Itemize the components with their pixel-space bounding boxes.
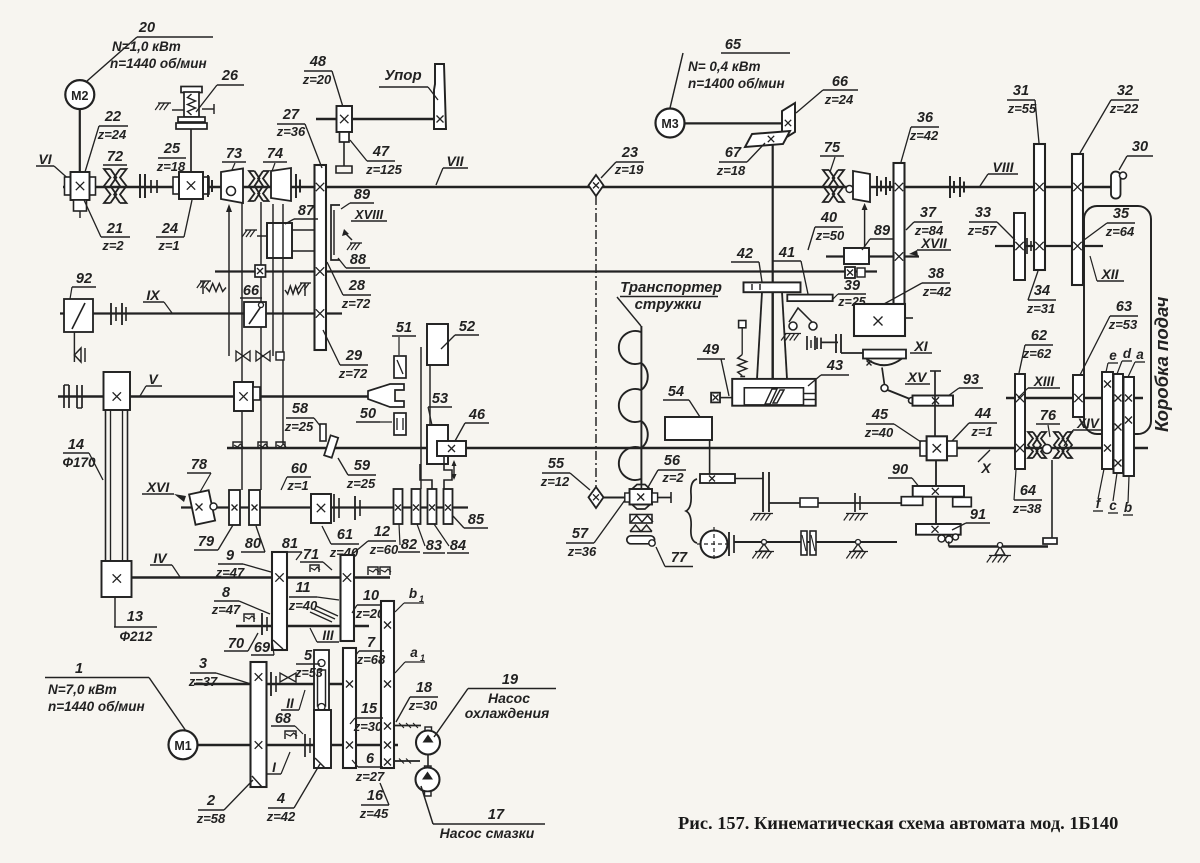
motor M3 — [656, 109, 685, 138]
freewheel bowtie on II — [280, 673, 296, 682]
svg-text:n=1400 об/мин: n=1400 об/мин — [688, 76, 785, 91]
svg-text:22: 22 — [104, 109, 121, 125]
wire 52 to 53 — [429, 365, 431, 425]
svg-text:III: III — [322, 628, 334, 643]
pump 17 nub top — [425, 766, 432, 771]
gear 83 — [412, 489, 421, 524]
gear 32 column — [1072, 154, 1083, 285]
gear 48 on aux shaft — [337, 106, 353, 132]
svg-text:z=36: z=36 — [567, 544, 597, 559]
box 87 clutch actuator — [267, 223, 292, 258]
vbelt clutch 76 on shaft XIV — [1028, 432, 1038, 458]
svg-text:40: 40 — [820, 210, 837, 226]
cam lever arm tapering — [757, 292, 762, 379]
svg-text:76: 76 — [1040, 408, 1057, 424]
gearbox 78 — [189, 490, 215, 524]
svg-text:18: 18 — [416, 680, 433, 696]
gear 4 column — [314, 710, 331, 768]
svg-text:41: 41 — [778, 245, 795, 261]
svg-text:z=42: z=42 — [266, 809, 296, 824]
svg-text:52: 52 — [459, 319, 475, 335]
svg-text:78: 78 — [191, 457, 208, 473]
ground hatch below y=503 right — [846, 513, 868, 515]
svg-text:z=25: z=25 — [284, 419, 314, 434]
control rod with arrow — [228, 207, 230, 356]
gear 84 — [428, 489, 437, 524]
svg-text:Насос: Насос — [488, 690, 530, 706]
svg-text:XIII: XIII — [1033, 374, 1055, 389]
wire clutch to bars — [735, 478, 763, 480]
svg-text:XII: XII — [1100, 266, 1119, 282]
gear 12/10 column — [341, 555, 355, 641]
handle 30 — [1111, 172, 1121, 199]
svg-text:z=18: z=18 — [716, 163, 746, 178]
svg-text:17: 17 — [488, 807, 505, 823]
wire y=353 to quadrant — [841, 352, 865, 354]
gear 63 column — [1073, 375, 1084, 417]
svg-text:61: 61 — [337, 527, 353, 543]
svg-text:73: 73 — [226, 146, 242, 162]
svg-text:z=24: z=24 — [97, 127, 127, 142]
svg-text:N= 0,4 кВт: N= 0,4 кВт — [688, 59, 761, 74]
svg-text:20: 20 — [138, 20, 155, 36]
svg-text:87: 87 — [298, 203, 315, 219]
svg-text:19: 19 — [502, 672, 518, 688]
box 53 — [427, 425, 448, 464]
svg-text:85: 85 — [468, 512, 485, 528]
gear 38 box — [854, 304, 905, 336]
gear 27/28/29 tall column — [315, 165, 327, 350]
svg-text:72: 72 — [107, 149, 123, 165]
svg-text:21: 21 — [106, 221, 123, 237]
cam bar 42 — [744, 282, 801, 292]
feed box frame rounded — [1084, 206, 1151, 434]
svg-text:34: 34 — [1034, 283, 1050, 299]
svg-text:14: 14 — [68, 437, 84, 453]
gear below shaft VI — [74, 200, 87, 211]
coupling right of 75 — [876, 176, 878, 196]
gearbox 44/45 on shaft X — [920, 441, 927, 456]
pump 19 cooling — [416, 731, 440, 755]
double bars at 835 — [835, 334, 837, 353]
wire below 92 — [73, 332, 75, 362]
wire from 54 down — [709, 440, 711, 474]
svg-text:37: 37 — [920, 205, 937, 221]
svg-text:z=55: z=55 — [1007, 101, 1037, 116]
gear a/b column — [1124, 377, 1135, 476]
shaft XVI — [181, 506, 468, 508]
gear 91 bar — [916, 524, 961, 535]
box 52 — [427, 324, 448, 365]
svg-text:53: 53 — [432, 391, 448, 407]
lever 92 box — [64, 299, 93, 332]
bracket 89 channel XVIII — [331, 205, 340, 260]
wavy clutch 57 — [630, 515, 652, 524]
spring left on y=271 — [200, 280, 211, 282]
wire from clutch 26 down — [190, 129, 192, 172]
svg-text:65: 65 — [725, 37, 742, 53]
gearbox 21/22 on shaft VI — [65, 177, 71, 195]
cam follower blades — [765, 389, 777, 404]
svg-text:12: 12 — [374, 524, 390, 540]
svg-text:М3: М3 — [661, 117, 678, 131]
gear 31 column — [1034, 144, 1045, 270]
svg-text:z=36: z=36 — [276, 124, 306, 139]
svg-text:I: I — [272, 760, 276, 775]
wire handwheel shaft y=542 — [734, 541, 897, 543]
svg-text:11: 11 — [295, 580, 310, 596]
svg-text:88: 88 — [350, 252, 367, 268]
gear 9/81 column on IV — [272, 552, 287, 650]
gear 85 — [444, 489, 453, 524]
support 2 on handwheel shaft — [856, 540, 861, 545]
svg-text:36: 36 — [917, 110, 934, 126]
svg-text:71: 71 — [303, 547, 319, 563]
svg-text:z=22: z=22 — [1109, 101, 1139, 116]
svg-text:66: 66 — [243, 283, 260, 299]
svg-text:Рис. 157. Кинематическая схема: Рис. 157. Кинематическая схема автомата … — [678, 813, 1118, 833]
bracket under 46 — [420, 464, 432, 489]
ground hatch below y=503 left — [753, 513, 773, 515]
svg-text:z=42: z=42 — [922, 284, 952, 299]
centrifugal clutch 26 — [181, 87, 202, 93]
svg-text:92: 92 — [76, 271, 92, 287]
gear 59 tilted — [320, 424, 326, 441]
svg-text:z=47: z=47 — [211, 602, 241, 617]
hatched arrow 11-III — [310, 606, 338, 622]
svg-text:27: 27 — [282, 107, 300, 123]
gear d/c column — [1114, 374, 1124, 473]
control rod 4 — [272, 204, 274, 356]
svg-text:49: 49 — [702, 342, 719, 358]
cam frame bottom — [732, 379, 816, 406]
wire M3 to bevel 66 — [685, 122, 784, 124]
wire pulley13 to label — [114, 597, 116, 627]
wire conveyor to 56 — [640, 484, 642, 489]
svg-text:z=40: z=40 — [288, 598, 318, 613]
wire y=503 to gear 90 — [769, 502, 901, 504]
small box with x on y=271 — [255, 265, 266, 277]
svg-text:II: II — [286, 696, 294, 711]
cam frame end cap lines — [804, 393, 816, 395]
svg-text:XVII: XVII — [920, 236, 947, 251]
gearbox 61 on XVI — [311, 494, 331, 523]
shaft XII — [995, 245, 1103, 247]
svg-text:13: 13 — [127, 609, 143, 625]
svg-text:n=1440 об/мин: n=1440 об/мин — [110, 56, 207, 71]
svg-text:стружки: стружки — [635, 296, 702, 313]
svg-text:z=24: z=24 — [824, 92, 854, 107]
svg-text:33: 33 — [975, 205, 991, 221]
wires 87 to gear 27 — [292, 229, 315, 231]
spring 49 column — [738, 355, 747, 376]
svg-text:z=64: z=64 — [1105, 224, 1135, 239]
svg-text:X: X — [980, 460, 992, 476]
svg-text:3: 3 — [199, 656, 207, 672]
svg-text:16: 16 — [367, 788, 384, 804]
double bar coupling on linkage — [816, 338, 818, 349]
wire pump19 to pump17 — [427, 755, 429, 767]
svg-text:z=45: z=45 — [359, 806, 389, 821]
svg-text:N=1,0 кВт: N=1,0 кВт — [112, 39, 181, 54]
vbelt clutch 75 — [823, 170, 834, 202]
small gear 39 with x — [845, 267, 855, 278]
gear 82 — [394, 489, 403, 524]
pulley pair left on shaft V — [63, 385, 65, 408]
svg-text:75: 75 — [824, 140, 841, 156]
svg-text:32: 32 — [1117, 83, 1133, 99]
cone gear 75 body — [853, 171, 870, 202]
svg-text:60: 60 — [291, 461, 307, 477]
svg-text:84: 84 — [450, 538, 466, 554]
svg-text:44: 44 — [974, 406, 991, 422]
motor M1 — [169, 730, 198, 759]
gear 2/3 column — [251, 662, 267, 787]
bottom rail wire — [949, 545, 1048, 547]
gear 90 bar — [913, 486, 964, 497]
hatch wall left of 87 — [245, 229, 257, 231]
svg-text:XV: XV — [907, 369, 928, 385]
svg-text:28: 28 — [348, 278, 366, 294]
gearbox 24/25 — [173, 177, 179, 194]
support ground on bottom rail — [995, 547, 1005, 556]
bowtie couplings on rods y=356 — [236, 351, 250, 361]
svg-text:93: 93 — [963, 372, 979, 388]
pump 17 nub bottom — [425, 792, 432, 797]
shaft IX — [60, 312, 342, 314]
svg-text:62: 62 — [1031, 328, 1047, 344]
freewheel 68 on I — [285, 731, 296, 739]
control rod 2 — [241, 202, 243, 490]
freewheel on III — [244, 614, 254, 622]
svg-text:z=72: z=72 — [341, 296, 371, 311]
svg-text:XIV: XIV — [1076, 416, 1100, 431]
svg-text:46: 46 — [468, 407, 486, 423]
support bars on y=503 — [854, 493, 856, 512]
stop blade (Упор) — [434, 64, 446, 129]
coupling small boxes on y=503 — [800, 498, 818, 507]
svg-text:z=53: z=53 — [294, 666, 323, 680]
wire XIV right end — [1134, 447, 1148, 449]
svg-text:47: 47 — [372, 144, 390, 160]
svg-text:z=60: z=60 — [369, 542, 399, 557]
svg-text:a: a — [1136, 347, 1144, 362]
svg-text:2: 2 — [206, 793, 215, 809]
svg-text:z=57: z=57 — [967, 223, 997, 238]
svg-text:59: 59 — [354, 458, 370, 474]
gear b1 column — [381, 601, 394, 768]
svg-text:24: 24 — [161, 221, 178, 237]
belt pulley 14 — [104, 372, 131, 410]
svg-text:n=1440 об/мин: n=1440 об/мин — [48, 699, 145, 714]
svg-text:5: 5 — [304, 648, 313, 664]
svg-text:z=12: z=12 — [540, 474, 570, 489]
shaft X — [227, 447, 1148, 449]
svg-text:31: 31 — [1013, 83, 1029, 99]
svg-text:z=58: z=58 — [196, 811, 226, 826]
svg-text:6: 6 — [366, 751, 375, 767]
svg-text:охлаждения: охлаждения — [465, 705, 550, 721]
wire gear to pump 17 — [394, 760, 420, 762]
gear 33 column — [1014, 213, 1025, 280]
svg-text:z=27: z=27 — [355, 769, 385, 784]
wire vertical gear 90 shaft — [935, 461, 937, 524]
hatch wall right of 26 — [202, 108, 214, 110]
handwheel flange — [728, 532, 730, 556]
svg-text:Транспортер: Транспортер — [620, 279, 722, 296]
svg-text:N=7,0 кВт: N=7,0 кВт — [48, 682, 117, 697]
svg-text:VII: VII — [446, 153, 464, 169]
svg-text:74: 74 — [267, 146, 283, 162]
svg-text:z=1: z=1 — [157, 238, 179, 253]
hatch wall left of 26 — [172, 109, 184, 111]
box 89 on shaft XVII — [844, 248, 869, 264]
svg-text:z=68: z=68 — [356, 652, 386, 667]
bevel gear 66 — [782, 103, 795, 140]
svg-text:66: 66 — [832, 74, 849, 90]
wire camshaft through lever — [771, 292, 773, 388]
svg-text:56: 56 — [664, 453, 681, 469]
svg-text:VI: VI — [38, 151, 52, 167]
svg-text:54: 54 — [668, 384, 684, 400]
svg-text:z=125: z=125 — [365, 162, 403, 177]
svg-text:50: 50 — [360, 406, 376, 422]
spring right on y=271 — [285, 286, 301, 294]
svg-text:25: 25 — [163, 141, 181, 157]
svg-text:z=37: z=37 — [188, 674, 218, 689]
svg-text:z=38: z=38 — [1012, 501, 1042, 516]
wire up from end plate — [1051, 460, 1053, 538]
double arrow under 46 — [453, 462, 455, 478]
gear 80 — [249, 490, 260, 525]
svg-text:z=30: z=30 — [408, 698, 438, 713]
svg-text:z=2: z=2 — [101, 238, 124, 253]
coupling right of 61 — [354, 496, 356, 520]
svg-text:39: 39 — [844, 278, 860, 294]
wire camshaft vertical — [772, 145, 774, 284]
svg-text:35: 35 — [1113, 206, 1130, 222]
svg-text:IX: IX — [146, 287, 161, 303]
svg-text:М2: М2 — [71, 89, 88, 103]
svg-text:7: 7 — [367, 635, 376, 651]
shifter fork 50 — [368, 384, 404, 407]
wire linkage to gear 38 area — [821, 341, 838, 343]
shaft III — [236, 625, 369, 627]
svg-text:e: e — [1109, 348, 1117, 363]
spring column box — [739, 321, 746, 328]
svg-text:55: 55 — [548, 456, 565, 472]
svg-text:10: 10 — [363, 588, 379, 604]
svg-text:z=1: z=1 — [286, 478, 308, 493]
wire XIII right end — [1134, 397, 1143, 399]
coupling right of 24 — [207, 175, 209, 197]
svg-text:15: 15 — [361, 701, 378, 717]
svg-text:30: 30 — [1132, 139, 1148, 155]
svg-text:9: 9 — [226, 548, 234, 564]
svg-text:d: d — [1123, 346, 1132, 361]
coupling left of gear 9 on III — [261, 613, 263, 635]
slip clutch discs — [801, 531, 807, 555]
svg-text:80: 80 — [245, 536, 261, 552]
hatch stop below 92 — [74, 348, 81, 362]
arrow and hatch at XVIII — [344, 232, 352, 240]
svg-text:z=50: z=50 — [815, 228, 845, 243]
wire second horizontal y=271 — [215, 270, 877, 272]
pump 19 nub — [425, 727, 432, 732]
double bars vertical linkage — [762, 472, 764, 512]
roller of 75 — [846, 186, 853, 193]
coupling between 33 and 31 — [1026, 238, 1028, 254]
svg-text:Ф212: Ф212 — [119, 629, 153, 644]
vbelt clutch between 73 and 74 — [249, 171, 259, 201]
gear 36 tall column — [894, 163, 905, 304]
gear 79 — [229, 490, 240, 525]
wire spring rod — [741, 328, 743, 355]
svg-text:4: 4 — [276, 791, 285, 807]
gear 7/6 column — [343, 648, 356, 768]
svg-text:z=40: z=40 — [864, 425, 894, 440]
coupling on I before gear 4 — [304, 734, 306, 757]
svg-text:z=72: z=72 — [338, 366, 368, 381]
svg-text:V: V — [148, 371, 159, 387]
svg-text:z=19: z=19 — [614, 162, 644, 177]
svg-text:IV: IV — [153, 550, 168, 566]
wire vertical x=935 above 44 — [934, 371, 936, 436]
svg-text:1: 1 — [75, 661, 83, 677]
component 50 small — [394, 413, 406, 435]
svg-text:z=2: z=2 — [661, 470, 684, 485]
gear 47 hub below 48 — [340, 132, 350, 142]
cone gear 73 — [221, 169, 243, 204]
bell crank with rollers — [789, 322, 797, 330]
rollers under 91 — [938, 535, 945, 542]
component 66 box with lever — [244, 302, 266, 327]
svg-text:VIII: VIII — [992, 159, 1014, 175]
svg-text:70: 70 — [228, 636, 244, 652]
box 54 — [665, 417, 712, 440]
control rod 5 — [282, 204, 284, 444]
svg-text:43: 43 — [826, 358, 843, 374]
shaft I — [197, 744, 398, 746]
shaft V — [58, 395, 372, 397]
svg-text:91: 91 — [970, 507, 986, 523]
svg-text:z=53: z=53 — [1108, 317, 1138, 332]
svg-text:42: 42 — [736, 246, 753, 262]
svg-text:57: 57 — [572, 526, 589, 542]
quadrant arc sector — [866, 359, 902, 366]
shaft XIII — [1006, 397, 1143, 399]
svg-text:69: 69 — [254, 640, 270, 656]
pump 17 lubrication — [416, 768, 440, 792]
wire arrow up to 75 — [864, 206, 866, 256]
svg-text:z=31: z=31 — [1026, 301, 1056, 316]
bevel gear 67 — [745, 131, 790, 147]
svg-text:Коробка подач: Коробка подач — [1151, 296, 1172, 432]
gearbox on shaft V — [234, 382, 253, 411]
control rod 3 — [260, 202, 262, 490]
coupling on shaft IX — [110, 303, 112, 325]
svg-text:Насос смазки: Насос смазки — [440, 825, 535, 841]
svg-text:z=47: z=47 — [215, 565, 245, 580]
bevel 47 at shaft VII — [336, 166, 352, 173]
coupling right of gear 3 — [270, 672, 272, 696]
clutch box with x below 54 — [700, 474, 735, 483]
component 51 — [394, 356, 406, 378]
belt to pulley 13 — [105, 410, 107, 561]
gearbox 56 — [632, 485, 650, 490]
svg-text:z=20: z=20 — [302, 72, 332, 87]
gear 62 column — [1015, 374, 1025, 469]
